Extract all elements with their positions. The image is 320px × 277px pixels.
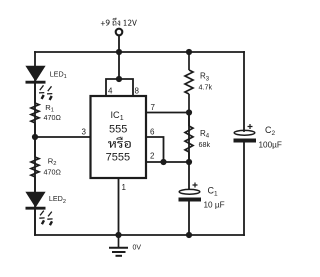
label Thai 'or' (traced) (108, 137, 131, 148)
svg-text:8: 8 (135, 87, 140, 96)
svg-text:6: 6 (150, 128, 155, 137)
svg-text:7: 7 (151, 103, 156, 112)
node junction pin7/R3/R4 (186, 109, 192, 115)
wire pin 7 to R3/R4 node (146, 112, 189, 114)
svg-text:2: 2 (150, 152, 155, 161)
capacitor C1 electrolytic (179, 183, 202, 202)
resistor R4 (185, 113, 193, 163)
svg-text:4.7k: 4.7k (199, 83, 213, 92)
wire C1 bottom to rail (188, 202, 190, 235)
wire pin 3 to left rail (35, 136, 91, 138)
svg-text:555: 555 (109, 123, 127, 135)
svg-text:4: 4 (108, 87, 113, 96)
wire R3 node to C1 top (188, 113, 190, 190)
svg-text:3: 3 (82, 128, 87, 137)
node junction pin3/left rail (32, 134, 38, 140)
node: +V terminal circle (116, 29, 123, 36)
svg-text:470Ω: 470Ω (44, 168, 62, 177)
svg-text:100µF: 100µF (259, 141, 282, 150)
wire left rail (34, 52, 36, 235)
op-amp/IC U1 555 body (91, 96, 147, 178)
wire right rail lower (C2 to bottom) (243, 143, 245, 236)
resistor R2 (31, 137, 39, 192)
wire bottom rail (35, 234, 244, 236)
capacitor C2 electrolytic (234, 124, 257, 143)
ground symbol (109, 235, 128, 256)
svg-text:68k: 68k (199, 140, 211, 149)
node junction R4/C1 (186, 159, 192, 165)
svg-text:10 µF: 10 µF (204, 200, 225, 209)
node junction C1/bottom rail (186, 232, 192, 238)
LED2 diode triangle (26, 192, 44, 206)
svg-text:1: 1 (122, 183, 127, 192)
LED2 wire to bottom rail (34, 210, 36, 235)
svg-text:0V: 0V (133, 245, 142, 252)
LED2 light arrows (39, 211, 52, 226)
resistor R1 (31, 84, 39, 138)
wire top rail (35, 51, 244, 53)
wire right rail upper (to C2) (243, 52, 245, 131)
label +9 to 12V (traced) (101, 18, 137, 26)
node junction at power/top rail (116, 49, 122, 55)
wire pins 4-8 bracket (106, 79, 133, 96)
wire pin 6 jog (146, 137, 164, 162)
LED1 cathode bar (26, 81, 46, 84)
node junction ground (115, 232, 121, 238)
node junction bracket center (116, 76, 122, 82)
wire power drop (118, 36, 120, 79)
node junction pin6/pin2 (160, 159, 166, 165)
svg-text:470Ω: 470Ω (44, 113, 62, 122)
LED1 light arrows (39, 85, 52, 100)
wire pin 1 down to ground rail (118, 178, 120, 235)
svg-text:7555: 7555 (106, 151, 130, 163)
LED1 diode triangle (26, 66, 44, 80)
resistor R3 (185, 52, 193, 113)
node junction R3 top (186, 49, 192, 55)
wire pin 2 to C1 node (146, 161, 189, 163)
LED2 cathode bar (26, 207, 46, 210)
